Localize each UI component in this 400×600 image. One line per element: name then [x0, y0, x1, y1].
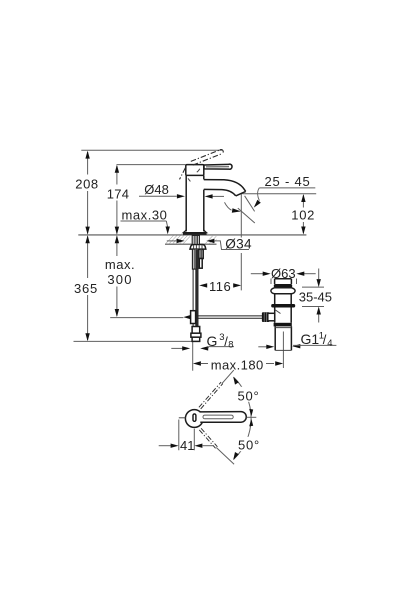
handle circle	[185, 410, 203, 428]
svg-text:G: G	[207, 333, 218, 349]
drain flange bell	[271, 288, 295, 294]
bottom hose-level line (365 lower extent)	[74, 340, 194, 342]
faucet body	[186, 176, 204, 232]
threaded shank	[192, 235, 199, 269]
svg-text:G1: G1	[301, 331, 320, 347]
dimension label G3/8	[171, 332, 234, 350]
drain plug	[274, 279, 292, 288]
water stream line 2	[238, 208, 255, 223]
dimension label Ø48 with leader	[139, 182, 224, 199]
rod clamp housing	[268, 313, 275, 321]
lever top view	[200, 412, 257, 423]
drain seal ring	[271, 304, 295, 308]
dimension label G1 1/4	[258, 330, 336, 349]
extension line top (208 height)	[81, 149, 222, 151]
svg-text:102: 102	[291, 208, 315, 223]
dimension Ø63	[251, 266, 316, 284]
dimension 174	[107, 165, 130, 235]
dimension label max.30 with down leader	[121, 207, 170, 234]
faucet cap	[186, 165, 204, 176]
lever stub line	[179, 417, 186, 419]
water stream line 1	[245, 196, 255, 212]
svg-text:208: 208	[75, 176, 99, 191]
rod clamp on hose	[191, 311, 196, 324]
svg-text:/: /	[323, 332, 327, 347]
svg-text:35-45: 35-45	[299, 289, 332, 304]
dimension label 25 - 45 with leader	[254, 174, 315, 207]
dimension 208	[75, 151, 99, 235]
dimension 116	[199, 279, 241, 294]
deck top line	[78, 234, 306, 236]
G3/8 hose connector	[191, 327, 201, 342]
drain locknut	[274, 323, 292, 327]
lever handle (horizontal)	[204, 164, 232, 169]
swing arc arrowheads	[233, 377, 239, 385]
stream pointer arrow	[225, 202, 241, 212]
svg-text:Ø34: Ø34	[225, 236, 252, 251]
deck hatching left	[166, 235, 191, 243]
label 50 deg lower	[236, 437, 260, 451]
svg-text:max.30: max.30	[122, 207, 168, 222]
dimension 35-45	[299, 269, 332, 323]
deck bottom line	[165, 243, 217, 245]
svg-text:max.180: max.180	[211, 357, 264, 372]
drain body lower	[275, 308, 292, 323]
svg-text:365: 365	[74, 281, 98, 296]
dimension max.300	[105, 235, 135, 317]
svg-text:300: 300	[107, 272, 132, 287]
spout tip drop line	[240, 194, 242, 291]
faucet base flare	[183, 230, 207, 235]
dimension 365	[74, 235, 98, 341]
drain tailpipe	[275, 326, 291, 350]
pull rod	[183, 315, 262, 319]
drain body upper	[275, 294, 292, 304]
faucet centre extension line	[192, 342, 194, 371]
flexible hose	[193, 250, 198, 327]
svg-text:116: 116	[209, 279, 231, 294]
spout	[204, 180, 246, 196]
drain centre extension line	[282, 332, 284, 369]
mounting washer and nut	[190, 245, 206, 250]
svg-text:50°: 50°	[238, 438, 260, 453]
deck hatching right	[206, 236, 217, 244]
aerator level extension line (102 top)	[242, 193, 316, 195]
dimension max.180	[193, 357, 283, 372]
svg-text:50°: 50°	[238, 389, 260, 404]
mounting stud	[199, 249, 204, 268]
handle pin	[193, 414, 196, 421]
swing dashed line upper	[199, 382, 223, 409]
pull rod knob	[262, 312, 270, 322]
label 50 deg upper	[236, 387, 260, 402]
dimension label Ø34 with leader	[167, 236, 252, 251]
svg-text:25 - 45: 25 - 45	[265, 174, 311, 189]
svg-text:max.: max.	[105, 257, 135, 272]
dimension 102	[291, 194, 315, 235]
svg-text:Ø48: Ø48	[144, 182, 169, 197]
pull rod guide line	[110, 317, 183, 319]
lever raised (dash-dot)	[180, 150, 224, 180]
svg-text:174: 174	[107, 186, 130, 201]
svg-text:41: 41	[180, 438, 194, 453]
extension line cap top (174 height)	[117, 164, 186, 166]
swing arc	[234, 377, 252, 459]
dimension 41	[159, 420, 214, 454]
svg-text:4: 4	[327, 338, 332, 349]
swing dashed line lower	[199, 428, 217, 448]
svg-text:8: 8	[228, 339, 233, 350]
